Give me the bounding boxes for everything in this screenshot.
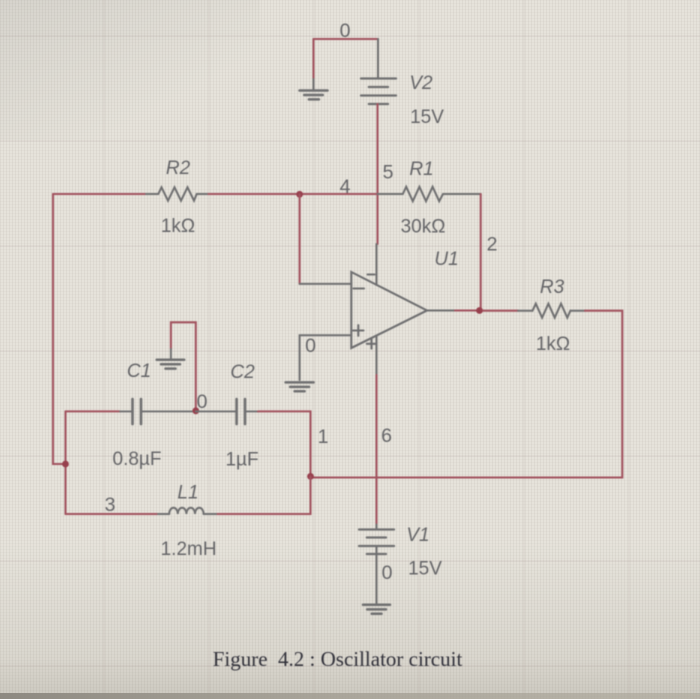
battery V1 [359,530,394,555]
op-amp V- power stub (top) [376,244,378,285]
op-amp U1 [351,272,427,348]
svg-text:30kΩ: 30kΩ [401,217,446,238]
resistor R1 [378,187,481,201]
wire op-amp plus input [300,335,352,380]
ground (C row) [157,349,185,369]
junction node 2 [476,307,483,314]
junction node 4 [296,191,303,198]
wire inner-left vertical [64,411,66,514]
svg-text:0: 0 [197,391,208,413]
wire R3 to right edge and down [311,311,623,478]
wire C2 right to node 1 [258,411,311,476]
battery V2 stem top [377,39,379,79]
resistor R3 [518,304,585,318]
junction node 0 (C row) [192,407,199,414]
wire node4 row [209,193,378,195]
capacitor C2 [196,399,258,424]
svg-text:R3: R3 [540,277,565,298]
op-amp V- marker [368,273,375,275]
svg-text:0: 0 [382,562,393,584]
op-amp V+ marker [367,339,376,349]
svg-text:0: 0 [340,20,351,42]
wire node2 feedback drop [480,194,482,311]
wire op-amp output [427,310,455,312]
svg-text:1kΩ: 1kΩ [536,334,570,355]
svg-text:15V: 15V [408,559,442,580]
ground (V1) [363,605,390,614]
wire node4 drop to minus input [299,194,301,284]
wire ground bracket (node 0 at C row) [171,322,196,411]
svg-text:2: 2 [487,234,498,256]
wire L row left [66,513,159,515]
wire C row left [66,410,121,412]
svg-text:L1: L1 [177,483,198,504]
junction node 1 [307,473,314,480]
battery V1 stem top [376,525,378,530]
op-amp V+ power stub (bottom) [376,336,378,376]
svg-text:R2: R2 [166,158,191,179]
junction node 3 (left) [62,461,69,468]
resistor R2 [146,187,209,200]
svg-text:V2: V2 [409,73,433,94]
svg-text:0.8µF: 0.8µF [113,449,162,470]
battery V2 [361,79,396,105]
svg-text:4: 4 [340,176,351,198]
ground (op-amp plus input) [286,382,314,391]
wire left vertical from R2 [53,194,66,464]
svg-text:C1: C1 [127,361,151,382]
capacitor C1 [120,399,196,424]
svg-text:15V: 15V [410,107,444,128]
svg-text:Figure 4.2 : Oscillator circu: Figure 4.2 : Oscillator circuit [213,647,463,671]
svg-text:R1: R1 [409,159,433,180]
wire output to node 2 [455,309,483,311]
svg-text:1kΩ: 1kΩ [161,216,195,237]
svg-text:5: 5 [383,162,394,184]
wire to R3 [483,310,518,312]
svg-text:0: 0 [305,335,316,357]
wire op-amp minus input [300,283,352,285]
svg-text:3: 3 [105,494,116,516]
svg-text:1: 1 [318,426,329,448]
wire op-amp V+ down to V1 [375,375,377,525]
svg-text:V1: V1 [406,525,429,546]
wire node1 down to L row [216,476,311,514]
svg-text:U1: U1 [434,249,458,270]
wire V2 minus down to node 5 [376,104,378,244]
wire node0 top horizontal [314,38,379,40]
wire V1 minus to ground [376,546,378,604]
wire node0 top left drop [312,39,314,79]
svg-text:1.2mH: 1.2mH [161,539,217,560]
svg-text:1µF: 1µF [225,450,258,471]
ground (top, near V2) [300,79,328,99]
wire R2 left [53,193,146,195]
svg-text:6: 6 [381,425,392,447]
inductor L1 [158,508,216,514]
svg-text:C2: C2 [230,362,255,383]
